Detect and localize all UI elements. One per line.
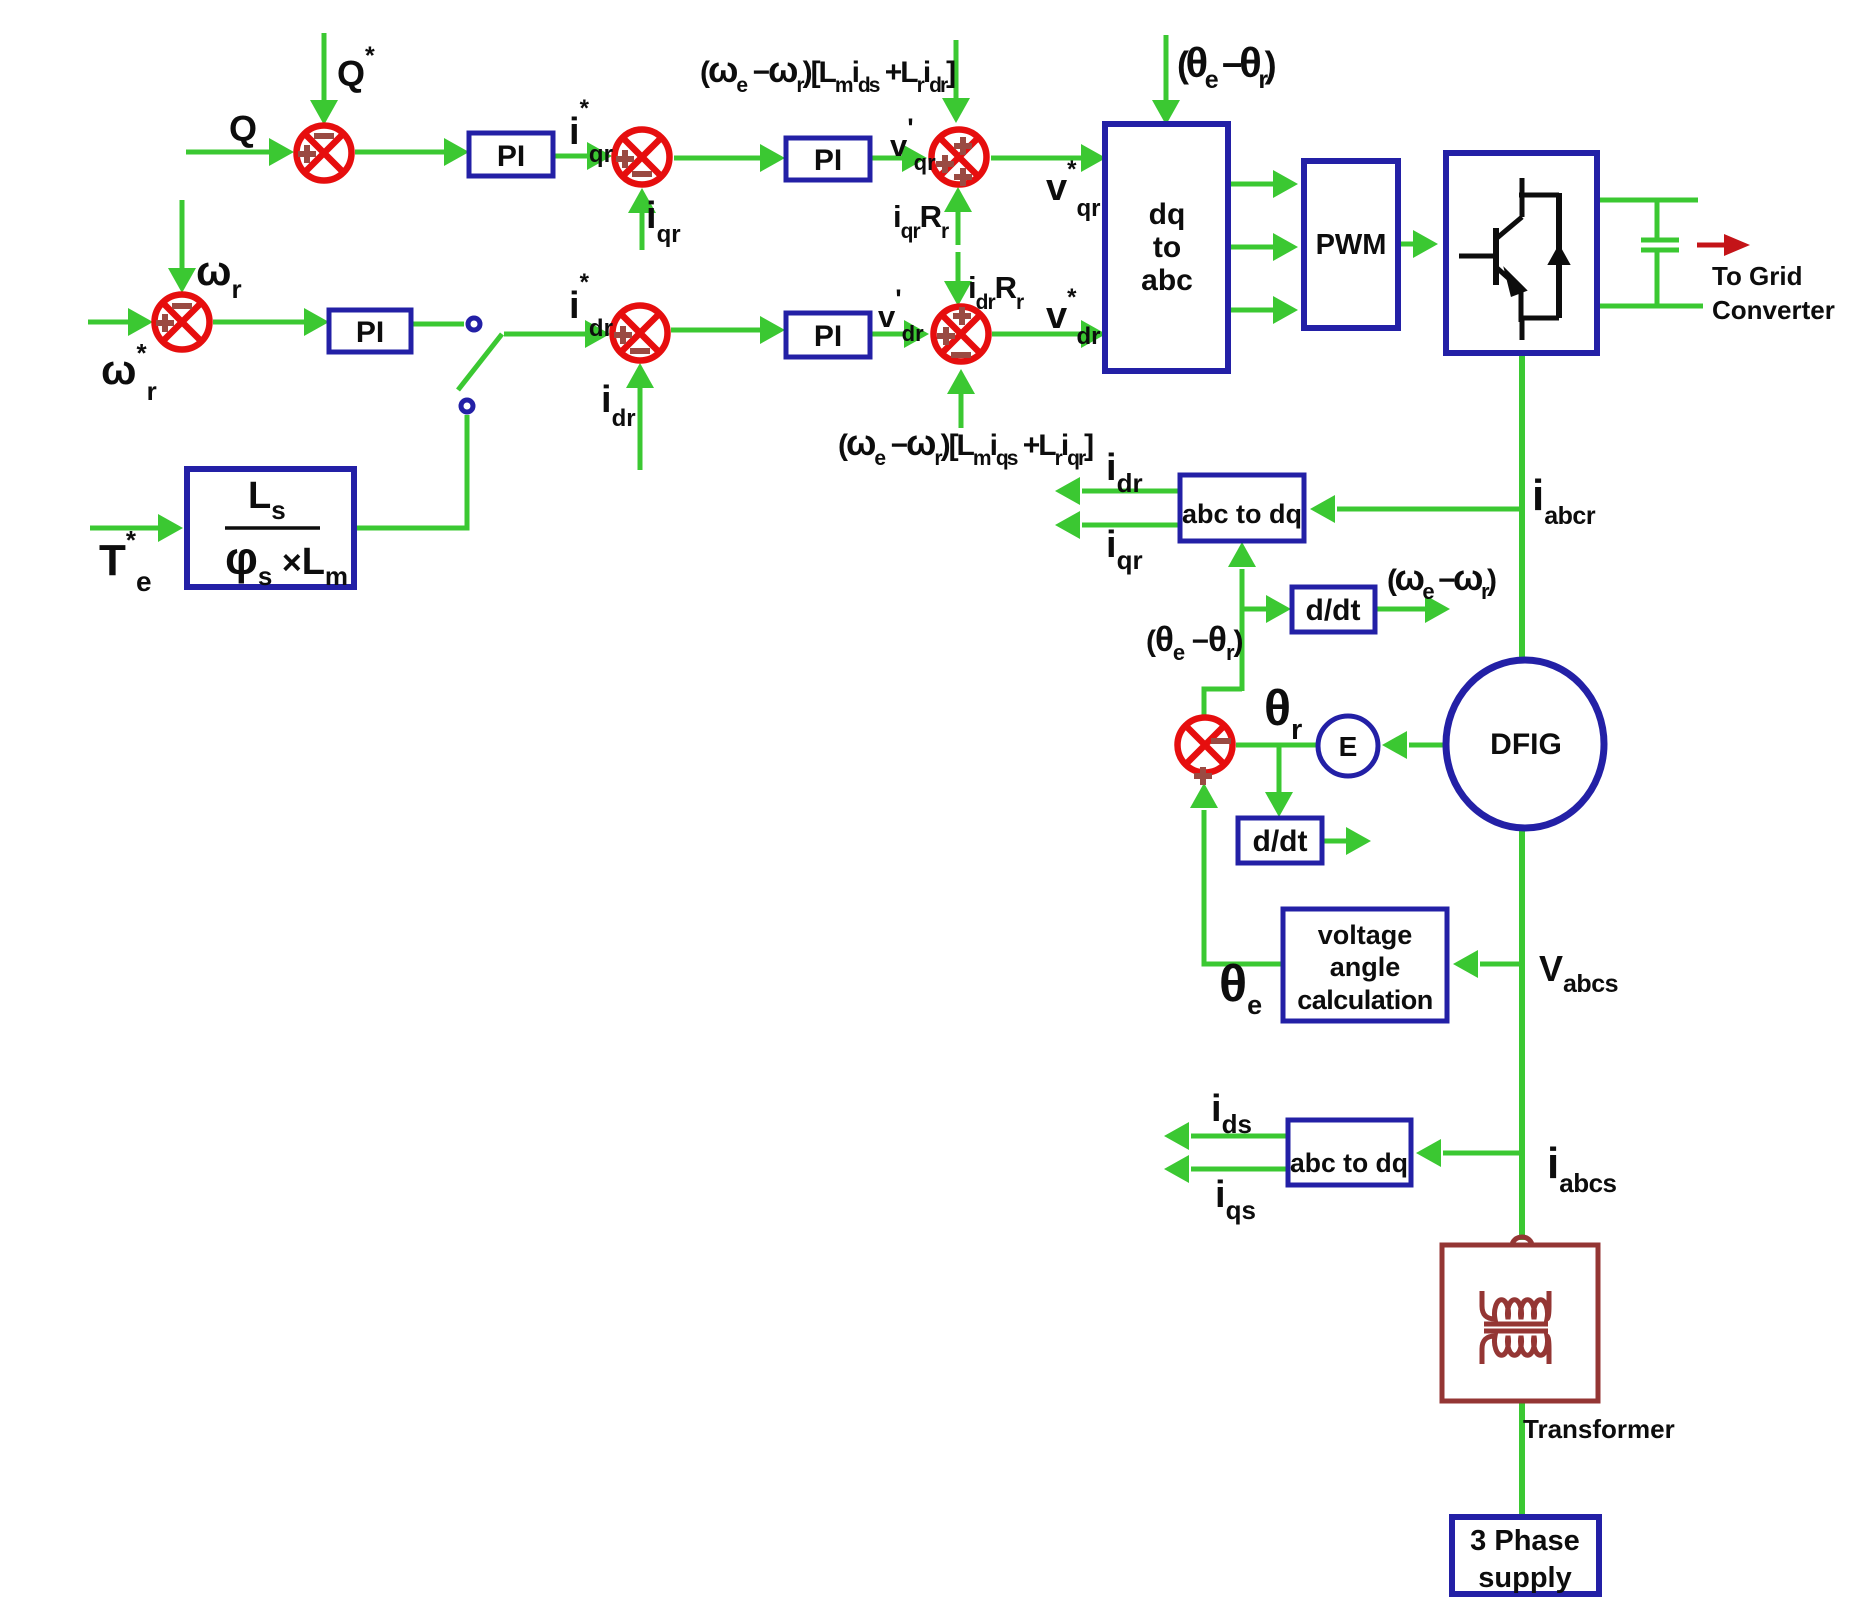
arrowhead down into d/dt2 [1265, 792, 1293, 817]
wire ids output of abc-dq2 [1191, 1134, 1288, 1139]
J6 minus sign [951, 352, 971, 358]
svg-text:(θe −θr): (θe −θr) [1146, 620, 1243, 665]
arrowhead iqrRr up [944, 187, 972, 212]
arrowhead into J6 [904, 320, 929, 348]
wire J2 to PI2 [674, 156, 760, 161]
arrowhead Te* [158, 514, 183, 542]
svg-text:T*e: T*e [99, 525, 152, 597]
J2 minus sign [632, 171, 652, 177]
svg-text:ω*r: ω*r [101, 338, 157, 406]
rotor side converter block [1446, 153, 1597, 353]
transformer top notch [1512, 1237, 1532, 1246]
wire transformer to 3 phase supply [1519, 1401, 1525, 1515]
wire d/dt1 output [1375, 607, 1425, 612]
J5 minus sign [631, 349, 650, 354]
d/dt block 2 [1238, 818, 1322, 863]
svg-text:Vabcs: Vabcs [1539, 948, 1618, 998]
arrowhead dq-abc out b [1273, 233, 1298, 261]
svg-text:abc: abc [1141, 264, 1193, 297]
wire iqrRr into J3 bottom [956, 212, 961, 245]
svg-text:calculation: calculation [1297, 985, 1433, 1015]
J2 plus sign [617, 151, 633, 167]
J7 plus sign [1195, 768, 1211, 784]
arrowhead dq-abc out a [1273, 170, 1298, 198]
wire PI3 to switch contact [411, 322, 464, 327]
J6 minus sign [952, 353, 971, 358]
wire Te* input [90, 526, 158, 531]
wire E to J7 (theta r) [1236, 743, 1316, 748]
d/dt block 1 [1292, 587, 1375, 632]
switch lower contact [461, 400, 473, 412]
svg-text:to: to [1153, 231, 1181, 264]
svg-text:ωr: ωr [196, 247, 242, 304]
wire Q feedback input [186, 150, 269, 155]
wire iabcs branch [1443, 1151, 1522, 1156]
wire lower contact to Ls output [357, 415, 467, 528]
wire idr feedback into J5 [638, 388, 643, 470]
abc to dq block (stator currents) [1288, 1120, 1411, 1185]
wire converter top dc rail [1600, 198, 1698, 203]
J5 plus sign [614, 332, 632, 338]
wire compensation term into J3 top [954, 40, 959, 98]
summing junction J3 (vqr) [932, 130, 987, 185]
svg-text:(ωe −ωr)[Lmiqs +Lriqr]: (ωe −ωr)[Lmiqs +Lriqr] [838, 422, 1093, 470]
svg-text:θr: θr [1264, 680, 1302, 746]
arrowhead Vabcs into block [1453, 950, 1478, 978]
wire switch to J5 (i*dr) [504, 332, 585, 337]
transformer primary winding [1482, 1291, 1549, 1319]
arrowhead idrRr down [944, 281, 972, 306]
arrowhead theta into block [1152, 100, 1180, 125]
transformer T1 outline [1442, 1237, 1598, 1401]
PWM block [1304, 161, 1398, 328]
J4 minus sign [172, 303, 192, 309]
wire theta to abc-dq1 bottom [1240, 569, 1245, 691]
dq to abc transformation block [1105, 124, 1228, 371]
arrowhead idr up [626, 363, 654, 388]
arrowhead d/dt1 out [1425, 595, 1450, 623]
arrowhead into PI2 [760, 144, 785, 172]
arrowhead up into abc-dq1 bottom [1228, 542, 1256, 567]
svg-text:iqrRr: iqrRr [893, 199, 949, 243]
svg-text:DFIG: DFIG [1490, 728, 1562, 761]
svg-text:v'qr: v'qr [890, 113, 936, 175]
svg-text:voltage: voltage [1318, 920, 1413, 950]
switch upper contact [468, 318, 480, 330]
wire J5 to PI4 [671, 328, 760, 333]
J3 plus signs [955, 138, 971, 154]
voltage angle calculation block [1283, 909, 1447, 1021]
wire dq-abc output b [1228, 245, 1273, 250]
svg-text:supply: supply [1478, 1562, 1571, 1594]
arrowhead ids out left [1164, 1122, 1189, 1150]
capacitor C1 plates [1641, 238, 1679, 243]
svg-text:Q: Q [229, 108, 257, 149]
wire dq-abc output a [1228, 182, 1273, 187]
J1 plus sign [298, 151, 316, 157]
E encoder circle [1318, 716, 1378, 776]
svg-text:PI: PI [497, 140, 525, 173]
svg-text:v'dr: v'dr [878, 284, 924, 346]
svg-text:Ls: Ls [248, 475, 286, 525]
wire iabcr branch to abc-dq1 [1337, 507, 1522, 512]
arrowhead into J3 [902, 144, 927, 172]
summing junction J2 (iqr loop) [615, 130, 670, 185]
svg-text:Converter: Converter [1712, 295, 1835, 325]
arrowhead Q [269, 138, 294, 166]
red arrow to grid converter [1697, 243, 1725, 248]
wire J3 to dq-abc (v*qr) [991, 156, 1081, 161]
diode D1 arrowhead [1549, 246, 1569, 264]
arrowhead comp into J6 bottom [947, 369, 975, 394]
summing junction J5 (idr loop) [613, 306, 668, 361]
svg-text:angle: angle [1330, 952, 1401, 982]
svg-text:abc to dq: abc to dq [1182, 499, 1302, 529]
wire compensation term into J6 bottom [959, 394, 964, 428]
wire converter to DFIG rotor (iabcr) [1519, 356, 1525, 660]
svg-text:dq: dq [1149, 198, 1186, 231]
J4 plus sign [157, 315, 173, 331]
svg-text:d/dt: d/dt [1253, 825, 1308, 858]
DFIG machine circle [1446, 660, 1604, 828]
wire DFIG stator down [1519, 828, 1525, 1240]
svg-text:PI: PI [814, 144, 842, 177]
arrowhead idr out left [1055, 477, 1080, 505]
wire PWM to converter [1401, 242, 1413, 247]
svg-text:PI: PI [356, 316, 384, 349]
arrowhead into J2 [587, 142, 612, 170]
svg-text:Q*: Q* [337, 42, 375, 94]
J1 minus sign [314, 133, 334, 139]
svg-text:iqr: iqr [646, 195, 681, 248]
arrowhead wr down [168, 268, 196, 293]
arrowhead iqr out left [1055, 511, 1080, 539]
J2 plus sign [616, 156, 634, 162]
wire J4 to PI3 [213, 320, 304, 325]
svg-text:(ωe −ωr): (ωe −ωr) [1387, 557, 1496, 604]
wire iqr output of abc-dq1 [1082, 523, 1180, 528]
arrowhead into PI1 [444, 138, 469, 166]
wire branch to d/dt1 [1242, 607, 1266, 612]
arrowhead iqs out left [1164, 1155, 1189, 1183]
wire dq-abc output c [1228, 308, 1273, 313]
svg-text:abc to dq: abc to dq [1290, 1148, 1408, 1178]
wire PI4 to J6 (v'dr) [870, 332, 904, 337]
arrowhead into PI4 [760, 316, 785, 344]
wire PI2 to J3 (v'qr) [870, 156, 902, 161]
IGBT emitter arrowhead [1506, 271, 1525, 295]
arrowhead iabcs into abc-dq2 [1416, 1139, 1441, 1167]
3 phase supply block [1452, 1517, 1599, 1594]
wire switch arm [458, 334, 502, 390]
svg-text:iqr: iqr [1106, 524, 1143, 575]
arrowhead v*dr into block [1081, 320, 1106, 348]
svg-text:3 Phase: 3 Phase [1470, 1525, 1580, 1557]
PI controller block 3 (wr loop) [329, 310, 411, 352]
wire J6 to dq-abc (v*dr) [992, 332, 1081, 337]
svg-text:Transformer: Transformer [1523, 1414, 1675, 1444]
J7 minus sign [1212, 739, 1231, 744]
J3 plus b sign [936, 161, 954, 167]
wire DFIG to E encoder [1409, 743, 1446, 748]
svg-text:iabcr: iabcr [1532, 471, 1596, 530]
arrowhead i*dr into J5 [585, 320, 610, 348]
wire PI1 to J2 (i*qr) [553, 154, 587, 159]
J4 plus sign [156, 320, 174, 326]
Ls/(phis x Lm) gain block [187, 469, 354, 587]
summing junction J7 (theta) [1178, 718, 1233, 773]
arrowhead v*qr into block [1081, 144, 1106, 172]
svg-text:(ωe −ωr)[Lmids +Lridr]: (ωe −ωr)[Lmids +Lridr] [700, 49, 955, 97]
svg-text:iabcs: iabcs [1547, 1139, 1617, 1198]
wire idrRr into J6 top [956, 252, 961, 281]
arrowhead into converter [1413, 230, 1438, 258]
PI controller block 4 (idr loop) [786, 313, 870, 357]
arrowhead d/dt2 out [1346, 827, 1371, 855]
svg-text:φs ×Lm: φs ×Lm [225, 532, 348, 591]
arrowhead wr* [128, 308, 153, 336]
arrowhead Q* [310, 100, 338, 125]
J2 minus sign [633, 172, 652, 177]
wire elbow down to J7 [1204, 689, 1242, 716]
svg-text:To Grid: To Grid [1712, 261, 1803, 291]
svg-text:PWM: PWM [1316, 229, 1387, 261]
wire idr output of abc-dq1 [1082, 489, 1180, 494]
svg-text:d/dt: d/dt [1306, 594, 1361, 627]
svg-text:iqs: iqs [1215, 1174, 1256, 1225]
wire branch down to d/dt2 [1277, 745, 1282, 792]
wire d/dt2 output [1322, 839, 1346, 844]
arrowhead into PI3 [304, 308, 329, 336]
wire wr input into J4 [180, 200, 185, 268]
wire J1 to PI1 [355, 150, 444, 155]
arrowhead iqr up [628, 188, 656, 213]
capacitor C1 top lead [1655, 200, 1660, 238]
J3 plus c sign [954, 174, 972, 180]
arrowhead into E [1382, 731, 1407, 759]
wire Vabcs branch [1480, 962, 1522, 967]
capacitor C1 bottom lead [1655, 252, 1660, 306]
J4 minus sign [173, 304, 192, 309]
transformer secondary winding [1482, 1336, 1549, 1364]
IGBT Q1 inside converter [1459, 178, 1559, 340]
PI controller block 1 (Q loop) [469, 133, 553, 176]
J7 plus sign [1194, 773, 1212, 779]
svg-text:PI: PI [814, 320, 842, 353]
svg-text:i*dr: i*dr [569, 269, 613, 342]
J6 plus b sign [937, 333, 955, 339]
arrowhead into d/dt1 [1266, 595, 1291, 623]
wire voltage-angle output to J7 [1204, 810, 1283, 964]
summing junction J4 (wr loop) [155, 295, 210, 350]
wire Q* reference input [322, 33, 327, 100]
J5 minus sign [630, 348, 650, 354]
J7 minus sign [1211, 738, 1231, 744]
J6 plus a sign [953, 313, 971, 319]
wire converter bottom dc rail [1600, 304, 1703, 309]
wire theta arrow into dq-abc top [1164, 35, 1169, 100]
J6 plus signs [954, 308, 970, 324]
summing junction J6 (vdr) [934, 307, 989, 362]
J3 plus a sign [954, 143, 972, 149]
arrowhead dq-abc out c [1273, 296, 1298, 324]
wire wr* input [88, 320, 128, 325]
arrowhead iabcr into abc-dq1 [1310, 495, 1335, 523]
svg-text:E: E [1339, 731, 1358, 762]
summing junction J1 (Q loop) [297, 126, 352, 181]
svg-text:idrRr: idrRr [968, 270, 1024, 314]
PI controller block 2 (iqr loop) [786, 138, 870, 180]
arrowhead comp into J3 top [942, 98, 970, 123]
arrowhead thetae up into J7 [1190, 783, 1218, 808]
svg-text:v*dr: v*dr [1046, 284, 1100, 350]
wire iqr feedback into J2 [640, 212, 645, 250]
svg-text:v*qr: v*qr [1046, 156, 1100, 222]
fraction bar [225, 526, 320, 530]
transformer core [1484, 1322, 1548, 1327]
svg-text:(θe −θr): (θe −θr) [1177, 39, 1276, 94]
J5 plus sign [615, 327, 631, 343]
wire iqs output of abc-dq2 [1191, 1167, 1288, 1172]
svg-text:ids: ids [1211, 1088, 1252, 1139]
abc to dq block (rotor currents) [1180, 475, 1304, 541]
